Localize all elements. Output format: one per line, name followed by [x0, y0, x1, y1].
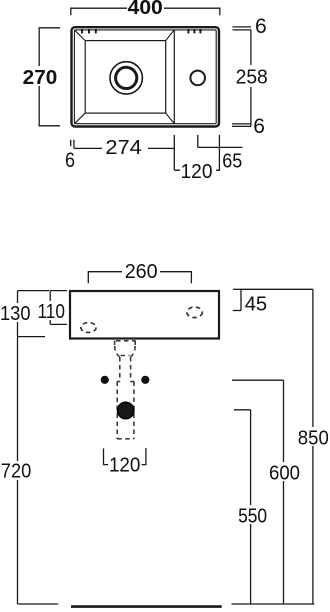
overflow dashed ellipse right — [187, 307, 202, 318]
svg-text:400: 400 — [128, 0, 163, 19]
dim 270 left — [39, 28, 60, 126]
dim 6 right top — [233, 27, 252, 30]
basin bottom rect — [85, 41, 166, 114]
basin rim inner line — [74, 30, 216, 124]
dim 400 top — [71, 8, 220, 15]
trap body wide — [116, 382, 118, 440]
dim 110 — [50, 291, 67, 325]
svg-text:6: 6 — [65, 149, 75, 172]
bevel diagonal BL — [75, 113, 86, 124]
step out — [117, 381, 120, 383]
svg-text:270: 270 — [23, 67, 58, 89]
svg-text:110: 110 — [37, 300, 65, 323]
svg-text:120: 120 — [109, 453, 141, 476]
bevel diagonal TL — [75, 30, 86, 41]
dim 850 — [241, 289, 313, 604]
dim 600 — [232, 380, 284, 604]
dim 120 bolts — [104, 448, 146, 465]
floor line — [71, 605, 222, 608]
drain inner circle — [116, 67, 137, 88]
dim 720 — [0, 461, 35, 480]
svg-text:130: 130 — [0, 302, 31, 325]
bevel diagonal TR — [166, 30, 174, 41]
dim 260 — [88, 272, 191, 284]
faucet hole circle — [190, 71, 205, 86]
svg-text:6: 6 — [255, 15, 267, 38]
basin front rect — [70, 291, 219, 339]
basin/deck divider — [173, 30, 175, 124]
drain outer circle — [110, 62, 142, 94]
hidden waste/trap outline (dashed) — [115, 341, 136, 440]
dim 258 right — [250, 30, 252, 126]
dim 130 — [18, 291, 50, 604]
svg-text:600: 600 — [269, 462, 300, 485]
waste collar — [116, 340, 136, 342]
dim 550 — [234, 410, 251, 604]
basin outer rect — [72, 27, 220, 126]
tailpipe narrow — [119, 357, 121, 381]
svg-text:274: 274 — [105, 136, 142, 159]
svg-text:550: 550 — [238, 504, 267, 527]
svg-text:720: 720 — [1, 459, 32, 482]
tap hole tick marks left group — [81, 29, 83, 33]
wall bolt left — [101, 376, 109, 384]
svg-text:260: 260 — [125, 260, 158, 283]
bottom datum line — [232, 603, 315, 605]
extension line at divider — [173, 135, 175, 170]
dim 65 — [197, 135, 199, 148]
extension line at right edge — [218, 135, 220, 171]
720 bottom tick — [18, 603, 59, 605]
bevel diagonal BR — [166, 113, 175, 124]
svg-text:258: 258 — [236, 65, 268, 88]
drain dashed ellipse left — [81, 323, 96, 333]
svg-text:45: 45 — [245, 292, 268, 315]
dim 6 right bottom — [232, 124, 251, 127]
svg-text:120: 120 — [181, 160, 213, 183]
svg-text:850: 850 — [298, 426, 329, 449]
dim 274 bottom — [74, 147, 174, 149]
dim 120 bottom — [174, 169, 219, 171]
dim 45 — [233, 289, 241, 310]
svg-text:6: 6 — [253, 115, 265, 138]
svg-text:65: 65 — [222, 150, 242, 173]
tap hole tick marks right group — [187, 29, 189, 33]
trap outlet circle — [118, 402, 134, 418]
dim 6 bottom left — [71, 140, 74, 149]
wall bolt right — [141, 376, 149, 384]
